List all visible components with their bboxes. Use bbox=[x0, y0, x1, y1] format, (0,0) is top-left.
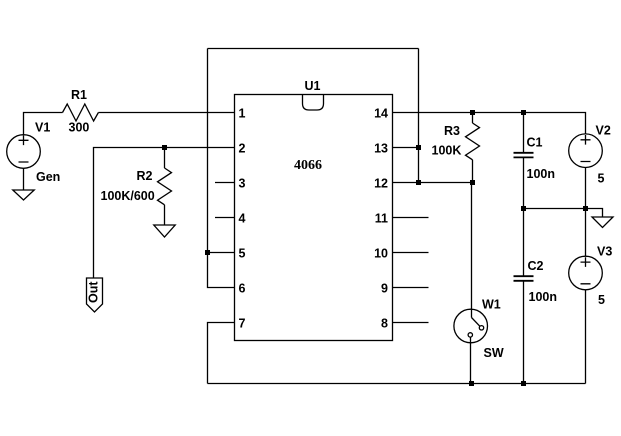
wire pin2 net: Out riser and to pin 2 bbox=[94, 148, 235, 279]
svg-text:C1: C1 bbox=[527, 136, 543, 150]
wire R1 to pin 1 bbox=[98, 112, 234, 114]
node junction pin5 bbox=[205, 250, 210, 255]
node junction R2 top bbox=[162, 145, 167, 150]
resistor R1 bbox=[63, 104, 99, 121]
svg-text:Out: Out bbox=[87, 281, 101, 303]
svg-text:13: 13 bbox=[374, 142, 388, 156]
svg-text:100n: 100n bbox=[529, 290, 558, 304]
voltage source V3 bbox=[569, 256, 603, 290]
svg-text:14: 14 bbox=[374, 107, 388, 121]
capacitor C1 bbox=[514, 113, 534, 209]
wire pin 13 bbox=[393, 147, 419, 149]
svg-text:W1: W1 bbox=[482, 298, 501, 312]
svg-text:100K/600: 100K/600 bbox=[101, 189, 155, 203]
wire pin 14 top rail to V2 bbox=[393, 113, 586, 134]
wire right vertical from top rail to pin 12 row bbox=[418, 49, 420, 183]
voltage source V1 bbox=[7, 135, 41, 169]
svg-text:5: 5 bbox=[239, 247, 246, 261]
svg-text:8: 8 bbox=[381, 317, 388, 331]
resistor R3 bbox=[466, 123, 480, 160]
svg-text:V1: V1 bbox=[35, 121, 50, 135]
node junction C2 bottom rail bbox=[521, 381, 526, 386]
svg-text:9: 9 bbox=[381, 282, 388, 296]
svg-text:4066: 4066 bbox=[294, 158, 322, 173]
svg-text:10: 10 bbox=[374, 247, 388, 261]
svg-text:SW: SW bbox=[484, 346, 504, 360]
node junction R3 top bbox=[470, 110, 475, 115]
wire pin 5 to vertical bbox=[208, 252, 235, 254]
wire R2 bottom lead bbox=[164, 205, 166, 225]
pin 8 stub bbox=[393, 322, 429, 324]
wire V3 top bbox=[585, 209, 587, 257]
svg-text:4: 4 bbox=[239, 212, 246, 226]
svg-text:1: 1 bbox=[239, 107, 246, 121]
svg-text:100n: 100n bbox=[527, 167, 556, 181]
node junction V2 bottom bbox=[583, 206, 588, 211]
wire V2 bottom bbox=[585, 168, 587, 209]
wire W1 bottom to rail bbox=[470, 337, 472, 383]
svg-text:5: 5 bbox=[598, 293, 605, 307]
svg-text:Gen: Gen bbox=[36, 170, 60, 184]
node junction R3 bottom bbox=[470, 180, 475, 185]
capacitor C2 bbox=[514, 209, 534, 384]
node junction pin13 bbox=[416, 145, 421, 150]
op-amp U1 IC body 4066 bbox=[235, 95, 393, 341]
wire pin 12 row to R3 bottom bbox=[393, 182, 473, 184]
node junction C1 bottom bbox=[521, 206, 526, 211]
svg-text:C2: C2 bbox=[528, 259, 544, 273]
svg-text:V2: V2 bbox=[596, 124, 611, 138]
ground under V1 bbox=[13, 190, 34, 200]
svg-text:V3: V3 bbox=[597, 245, 612, 259]
wire top rail bbox=[208, 48, 419, 50]
wire pin 7 down to bottom rail bbox=[208, 323, 235, 384]
svg-text:300: 300 bbox=[69, 121, 90, 135]
wire V3 bottom bbox=[585, 290, 587, 384]
pin 4 stub bbox=[215, 217, 235, 219]
svg-text:11: 11 bbox=[375, 212, 388, 226]
switch W1 bbox=[454, 309, 488, 343]
ground right bbox=[592, 217, 613, 228]
svg-text:U1: U1 bbox=[305, 79, 321, 93]
pin 10 stub bbox=[393, 252, 429, 254]
svg-text:12: 12 bbox=[374, 177, 388, 191]
pin 9 stub bbox=[393, 287, 429, 289]
node junction C1 top bbox=[521, 110, 526, 115]
svg-text:R1: R1 bbox=[71, 88, 87, 102]
resistor R2 bbox=[158, 168, 172, 205]
svg-text:R3: R3 bbox=[444, 124, 460, 138]
wire V1 to R1 (pin1 net left) bbox=[24, 113, 63, 136]
pin 11 stub bbox=[393, 217, 429, 219]
node junction pin12 vertical bbox=[416, 180, 421, 185]
wire R3 bottom to switch W1 bbox=[472, 160, 473, 318]
voltage source V2 bbox=[569, 134, 603, 168]
svg-text:5: 5 bbox=[598, 172, 605, 186]
wire mid ground rail bbox=[524, 209, 603, 218]
node junction W1 bottom rail bbox=[469, 381, 474, 386]
svg-text:3: 3 bbox=[239, 177, 246, 191]
svg-text:2: 2 bbox=[239, 142, 246, 156]
wire V1 to ground bbox=[23, 168, 25, 190]
pin 3 stub bbox=[215, 182, 235, 184]
wire R2 top lead bbox=[164, 148, 166, 169]
svg-text:6: 6 bbox=[239, 282, 246, 296]
port Out symbol bbox=[87, 278, 103, 312]
svg-text:R2: R2 bbox=[137, 169, 153, 183]
wire top rail left vertical to pin 6 bbox=[208, 49, 235, 288]
svg-text:7: 7 bbox=[239, 317, 246, 331]
wire bottom rail bbox=[208, 383, 586, 385]
svg-text:100K: 100K bbox=[432, 144, 462, 158]
ground under R2 bbox=[154, 225, 175, 237]
wire R3 top lead bbox=[472, 113, 474, 124]
